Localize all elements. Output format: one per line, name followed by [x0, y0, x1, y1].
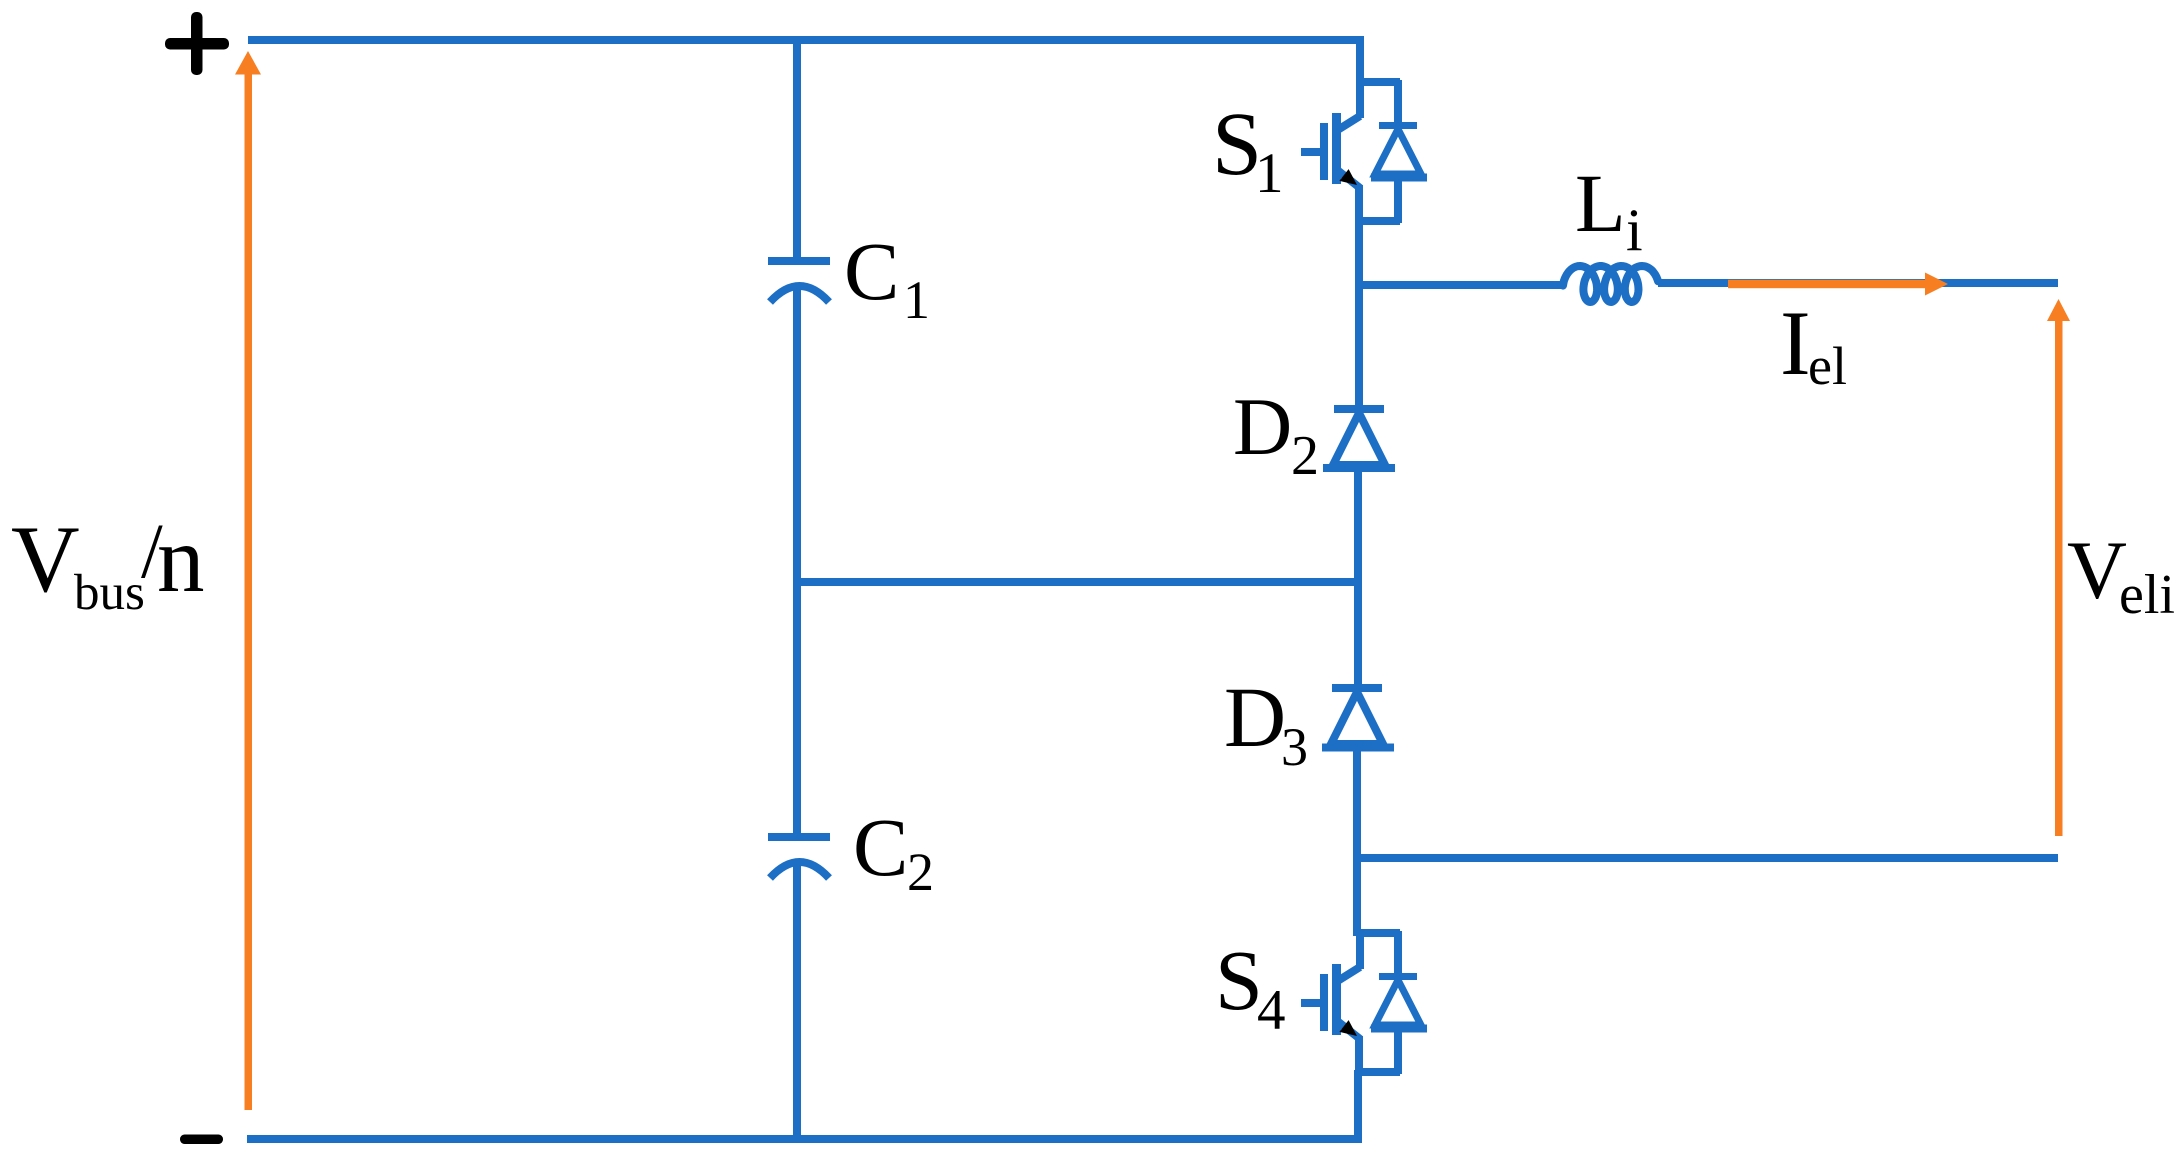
svg-text:C: C: [844, 225, 899, 317]
label C1: [844, 225, 930, 330]
svg-text:L: L: [1575, 157, 1626, 249]
svg-text:S: S: [1215, 932, 1263, 1028]
wire node A to inductor: [1355, 281, 1565, 289]
diode D3: [1322, 688, 1394, 748]
transistor S4 (IGBT with antiparallel diode): [1301, 931, 1427, 1074]
svg-text:2: 2: [1291, 425, 1319, 487]
wire S1 emitter to node A: [1355, 219, 1363, 289]
label Veli: [2067, 524, 2175, 626]
wire top bus: [248, 40, 1360, 84]
capacitor C2: [768, 837, 830, 878]
transistor S1 (IGBT with antiparallel diode): [1301, 80, 1427, 223]
wire C2 to bottom bus: [793, 861, 801, 1143]
wire inductor to right end: [1658, 279, 2058, 287]
label Vbus/n: [11, 506, 205, 621]
svg-text:D: D: [1233, 381, 1292, 472]
arrow Vbus/n (left, orange, up): [235, 51, 261, 1110]
svg-text:V: V: [11, 506, 80, 612]
svg-text:1: 1: [903, 270, 930, 330]
svg-text:4: 4: [1257, 979, 1286, 1042]
label C2: [853, 801, 934, 902]
svg-text:D: D: [1224, 669, 1286, 765]
label D3: [1224, 669, 1308, 777]
svg-text:i: i: [1626, 197, 1643, 263]
svg-text:C: C: [853, 801, 908, 893]
svg-text:bus: bus: [74, 565, 145, 621]
wire node A to D2: [1355, 285, 1363, 409]
svg-text:1: 1: [1255, 142, 1284, 205]
svg-text:I: I: [1780, 292, 1811, 394]
capacitor C1: [768, 261, 830, 302]
svg-text:2: 2: [907, 842, 934, 902]
IGBT S4 emitter arrow: [1339, 1020, 1357, 1036]
wire C1 to mid node: [793, 285, 801, 586]
diode D2: [1323, 409, 1395, 468]
svg-text:n: n: [157, 506, 205, 612]
label S4: [1215, 932, 1286, 1042]
svg-text:el: el: [1808, 336, 1847, 396]
svg-text:V: V: [2067, 524, 2127, 616]
plus terminal label: [165, 12, 229, 75]
wire bottom bus: [247, 1135, 1361, 1143]
minus terminal label: [180, 1135, 223, 1145]
wire capacitor-chain top: [793, 36, 801, 261]
wire node B horizontal: [1357, 854, 2058, 862]
inductor Li coil: [1563, 266, 1658, 302]
wire mid node to C2: [793, 578, 801, 837]
arrow Iel (orange, right): [1728, 273, 1948, 296]
svg-text:3: 3: [1281, 717, 1308, 777]
wire mid node horizontal: [793, 578, 1360, 586]
IGBT S1 emitter arrow: [1339, 169, 1357, 185]
label Li: [1575, 157, 1643, 263]
wire D2 to D3 through mid node: [1354, 468, 1362, 688]
label S1: [1212, 95, 1284, 205]
svg-text:eli: eli: [2119, 564, 2175, 626]
wire S4 emitter to bottom bus: [1354, 1070, 1362, 1143]
label Iel: [1780, 292, 1847, 396]
label D2: [1233, 381, 1319, 487]
arrow Veli (right, orange, up): [2047, 299, 2070, 836]
wire D3 to node B and S4: [1353, 747, 1361, 936]
